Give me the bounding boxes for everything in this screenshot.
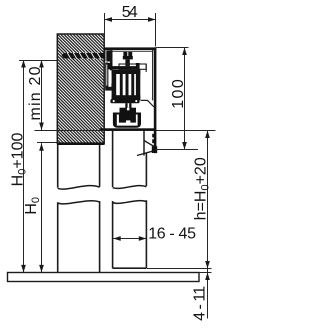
dim min 20 [27,60,44,130]
wire 100-dim top extension [156,47,189,49]
wall below lintel [58,145,100,272]
svg-text:H0+100: H0+100 [10,133,29,187]
dim h=H0+20 and 4-11 shared line [191,131,211,321]
suspension hat plate [108,63,140,69]
dim H0+100 [10,60,29,272]
dim 100 [170,48,187,150]
track right inner step [141,100,155,107]
roller wheel section bars [110,70,140,104]
track left wall J-hook [105,63,113,91]
wire top reference line [19,60,57,62]
door clamp bracket [113,108,141,128]
node door-top reference line [35,130,216,132]
track right wall [154,47,157,153]
dim 54 [105,4,156,47]
wire door-bottom extension [147,268,212,270]
track inner ceiling line [112,51,152,53]
wire floor-top extension [199,272,212,274]
track inner right line [152,50,154,100]
door top thick edge [100,128,157,130]
svg-text:100: 100 [170,79,187,109]
carriage plate [119,64,146,72]
screw into wall [62,51,111,62]
dim 16-45 [113,225,196,242]
wall lintel hatched [57,34,105,145]
dim H0 [23,143,44,272]
svg-text:4 - 11: 4 - 11 [191,286,208,321]
track bottom-right flange [137,130,157,156]
floor slab [8,273,200,282]
wire lintel-bottom extension [37,142,57,144]
door panel [113,130,147,268]
track top plate [104,47,157,50]
svg-text:min 20: min 20 [27,66,44,120]
bracket plate [110,50,113,70]
roller hanger bolt nut [123,52,133,66]
hanger stem [125,103,131,109]
svg-text:54: 54 [122,4,138,21]
wire flange tip reference [156,149,199,151]
svg-text:16 - 45: 16 - 45 [148,225,196,242]
